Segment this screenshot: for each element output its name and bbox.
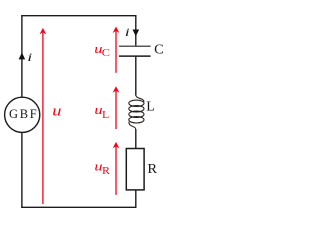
svg-text:R: R xyxy=(102,166,110,177)
voltage arrow uC xyxy=(113,27,120,73)
svg-text:L: L xyxy=(146,100,155,115)
svg-text:u: u xyxy=(52,103,61,119)
svg-text:i: i xyxy=(27,52,32,64)
wire right: top to capacitor xyxy=(135,15,137,45)
svg-text:L: L xyxy=(102,110,109,121)
wire left lower segment xyxy=(21,132,23,208)
svg-text:GBF: GBF xyxy=(9,107,38,121)
label uC xyxy=(94,41,110,59)
wire right: resistor to bottom xyxy=(135,190,137,208)
label uR xyxy=(94,159,110,178)
wire top (node between GBF and C branch) xyxy=(21,15,136,17)
voltage arrow uL xyxy=(113,86,120,129)
svg-text:C: C xyxy=(154,43,164,58)
svg-text:R: R xyxy=(147,162,157,177)
inductor L coil xyxy=(129,95,144,130)
current arrow i (top right, down) xyxy=(133,30,140,37)
GBF source circle xyxy=(5,97,40,132)
resistor R body xyxy=(126,149,144,190)
label uL xyxy=(94,102,109,121)
voltage arrow u (long, middle) xyxy=(40,28,47,204)
wire right: inductor to resistor xyxy=(135,129,137,148)
wire bottom xyxy=(21,206,136,208)
current arrow i (left wire, up) xyxy=(19,53,26,60)
wire right: capacitor to inductor xyxy=(135,57,137,96)
svg-text:i: i xyxy=(125,27,130,39)
capacitor C plates xyxy=(119,46,151,56)
wire left upper segment xyxy=(21,15,23,97)
svg-text:C: C xyxy=(102,48,110,59)
voltage arrow uR xyxy=(113,142,120,195)
